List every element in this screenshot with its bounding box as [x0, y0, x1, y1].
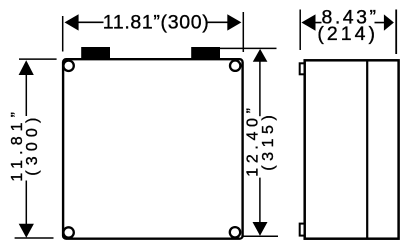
overall height dim line lower segment [259, 178, 261, 235]
overall height dim line upper segment [259, 51, 261, 117]
width dim extension line right [242, 12, 244, 52]
side view lid seam line [366, 61, 368, 238]
depth dim extension line right [395, 10, 397, 55]
height dim arrow down [19, 224, 34, 238]
side view clip bottom [300, 224, 305, 236]
svg-text:11.81”(300): 11.81”(300) [103, 11, 209, 33]
side view clip top [300, 63, 305, 74]
mounting tab left [81, 47, 110, 60]
height dim arrow up [19, 60, 34, 75]
height dim line upper segment [25, 62, 27, 116]
width dim line right segment [208, 21, 236, 23]
corner screw bottom-left [63, 227, 73, 237]
height dim extension line top [19, 58, 57, 60]
corner screw top-right [230, 60, 240, 70]
width dim arrow left [65, 14, 79, 30]
depth dim extension line left [299, 10, 301, 51]
width dim line left segment [70, 21, 104, 23]
corner screw bottom-right [230, 227, 240, 237]
width dim extension line left [62, 16, 64, 52]
depth dim line left segment [308, 22, 322, 24]
enclosure side view outline [305, 60, 399, 238]
overall height dim arrow down [253, 222, 268, 236]
width dim arrow right [227, 14, 241, 30]
height dim line lower segment [25, 181, 27, 237]
mounting tab right [191, 47, 220, 60]
overall height dim extension line bottom [242, 235, 279, 237]
depth dim arrow right [384, 14, 394, 30]
overall height dim arrow up [253, 49, 268, 62]
depth dim line right segment [375, 22, 386, 24]
enclosure front view outline [63, 59, 243, 239]
overall height dim extension line top [220, 47, 277, 49]
height dim extension line bottom [15, 237, 54, 239]
depth dim arrow left [301, 14, 315, 30]
corner screw top-left [63, 61, 73, 71]
